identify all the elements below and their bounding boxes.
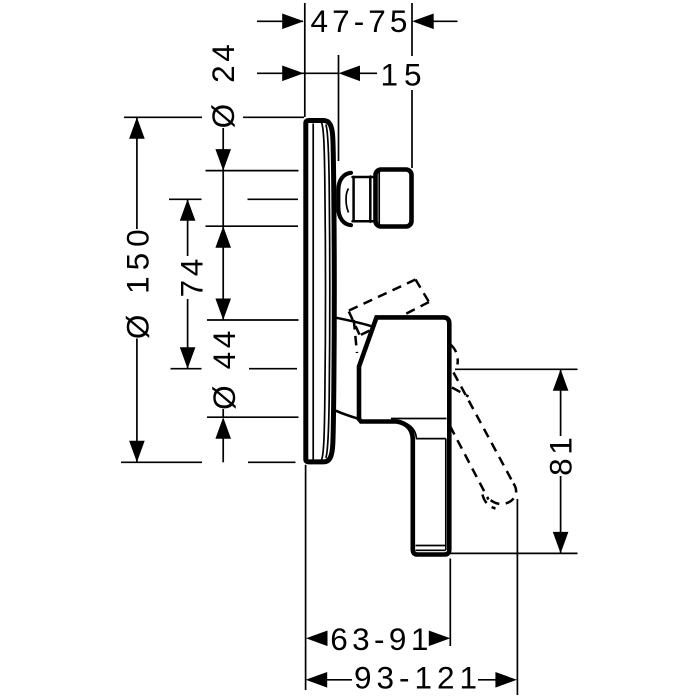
dashed lever down position lower edge [450, 426, 489, 500]
svg-text:47-75: 47-75 [310, 3, 411, 39]
dimension 74 arrow top [180, 199, 196, 221]
dimension 47-75 arrow right [412, 14, 434, 30]
extension line 74 bottom / hub pivot [171, 368, 202, 370]
extension line dashed lever tip vertical [516, 499, 518, 695]
dimension 15 line [257, 72, 338, 74]
stub knob [376, 170, 412, 227]
lever bar inner vertical [445, 439, 447, 550]
svg-text:15: 15 [380, 57, 427, 93]
handle hub and lever bar outline [359, 317, 449, 554]
dimension O44 arrow bottom [215, 417, 231, 439]
extension line 81 bottom [451, 552, 578, 554]
dashed lever up position butt cap [349, 312, 360, 336]
dimension 74 line upper [187, 199, 189, 256]
handle sleeve cone bottom edge [336, 411, 359, 419]
dimension 15 arrow left [282, 66, 304, 82]
dashed lever down position tip cap [491, 484, 517, 505]
extension line plate bottom (O150 bottom) [121, 461, 202, 463]
svg-text:93-121: 93-121 [354, 660, 482, 696]
dashed hub rotated arc upper [451, 345, 458, 365]
dimension 47-75 line left [257, 20, 303, 22]
dimension 47-75 arrow left [282, 14, 304, 30]
dimension O24 arrow bottom [215, 226, 231, 248]
svg-text:Ø 150: Ø 150 [119, 223, 155, 339]
dimension O44 leader to plate bottom [222, 438, 224, 462]
extension line hub top (O44 top) [207, 319, 299, 321]
dashed lever up position upper edge [349, 280, 416, 311]
dashed lever up position butt corner [354, 320, 357, 353]
plate chamfer curve 1 [322, 123, 326, 460]
dimension 93-121 arrow left [306, 672, 328, 688]
lever bar end lines [416, 545, 446, 547]
dimension O24 arrow top [215, 149, 231, 171]
dimension 74 line lower [187, 299, 189, 369]
dashed hub rotated mark lower [452, 388, 469, 397]
neck inner arc [346, 189, 348, 213]
lever bar top inner curve [398, 422, 446, 439]
dimension 93-121 line left [327, 679, 353, 681]
extension line wall vertical bottom [305, 465, 307, 690]
extension line plate top (O150 top) [124, 116, 202, 118]
dimension 63-91 arrow right [429, 631, 451, 647]
svg-text:Ø 24: Ø 24 [205, 41, 241, 129]
dimension O150 line upper [136, 117, 138, 229]
extension line knob bottom (O24 bottom) [206, 225, 299, 227]
extension line 74 top [169, 198, 202, 200]
hub bottom face line [391, 418, 447, 420]
dimension O24 leader line [222, 128, 224, 226]
dashed lever up position end cap [416, 280, 430, 303]
dimension 81 line upper [560, 369, 562, 436]
dimension 81 line lower [560, 476, 562, 553]
dimension 63-91 arrow left [306, 631, 328, 647]
plate chamfer curve 2 [326, 125, 330, 458]
dimension 81 arrow bottom [553, 532, 569, 554]
dimension O44 line lower [222, 409, 224, 417]
dimension O150 line lower [136, 339, 138, 463]
cartridge neck collar [338, 173, 351, 225]
escutcheon plate outer outline [306, 121, 335, 462]
dimension 93-121 arrow right [495, 672, 517, 688]
dashed lever up position lower edge [405, 302, 430, 315]
svg-text:63-91: 63-91 [330, 621, 433, 657]
extension line hub bottom (O44 bottom) [207, 416, 299, 418]
dimension 81 arrow top [553, 369, 569, 391]
plate front face line [312, 124, 314, 460]
dimension O150 arrow bottom [129, 441, 145, 463]
dashed lever down position upper edge [454, 373, 514, 484]
extension line knob top (O24 top) [206, 170, 299, 172]
svg-text:Ø 44: Ø 44 [206, 327, 242, 410]
dimension 93-121 line right [478, 679, 496, 681]
extension line wall vertical top [304, 3, 306, 117]
extension line 15 right vertical [338, 55, 340, 161]
dashed lever down position tip lower corner [483, 495, 496, 509]
extension line lever bar right vertical [449, 559, 451, 647]
dimension 15 arrow right [339, 66, 361, 82]
dimension O44 arrow top [215, 299, 231, 321]
dimension 15 line right [359, 72, 377, 74]
stub cylinder [352, 177, 355, 221]
knob front face line [378, 172, 380, 225]
dimension O150 arrow top [129, 117, 145, 139]
extension line 47-75 right vertical [411, 3, 413, 56]
svg-text:81: 81 [542, 434, 578, 476]
extension line 81 top [455, 368, 578, 370]
svg-text:74: 74 [174, 255, 210, 297]
dimension 74 arrow bottom [180, 347, 196, 369]
dimension 47-75 line right [433, 20, 458, 22]
dashed lever up position lower edge visible part [361, 330, 372, 335]
handle sleeve cone top edge [337, 318, 373, 327]
dimension O44 leader line upper [222, 226, 224, 320]
